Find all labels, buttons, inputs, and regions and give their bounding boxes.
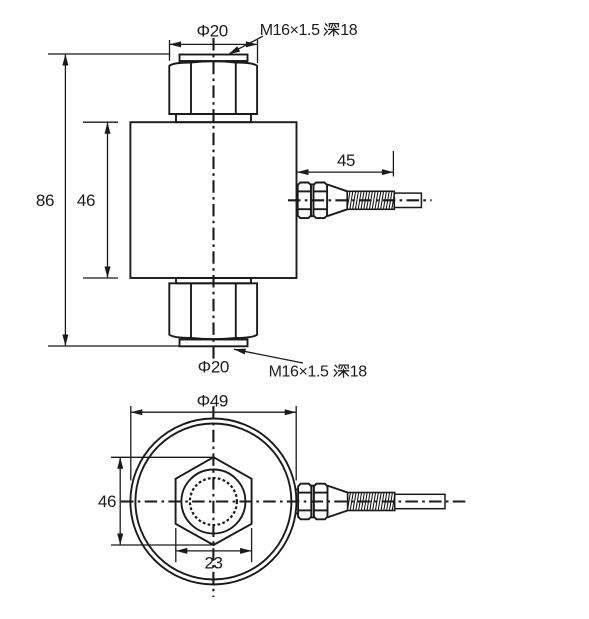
svg-text:46: 46 [98, 492, 116, 511]
svg-text:18: 18 [340, 22, 357, 39]
svg-text:45: 45 [337, 151, 355, 170]
svg-text:Φ20: Φ20 [198, 358, 229, 377]
svg-text:46: 46 [77, 191, 95, 210]
svg-text:M16×1.5: M16×1.5 [269, 364, 329, 381]
svg-text:Φ49: Φ49 [197, 391, 228, 410]
svg-text:18: 18 [350, 364, 367, 381]
svg-text:M16×1.5: M16×1.5 [260, 22, 320, 39]
svg-text:Φ20: Φ20 [197, 21, 228, 40]
svg-text:23: 23 [204, 554, 222, 573]
svg-text:86: 86 [36, 191, 54, 210]
